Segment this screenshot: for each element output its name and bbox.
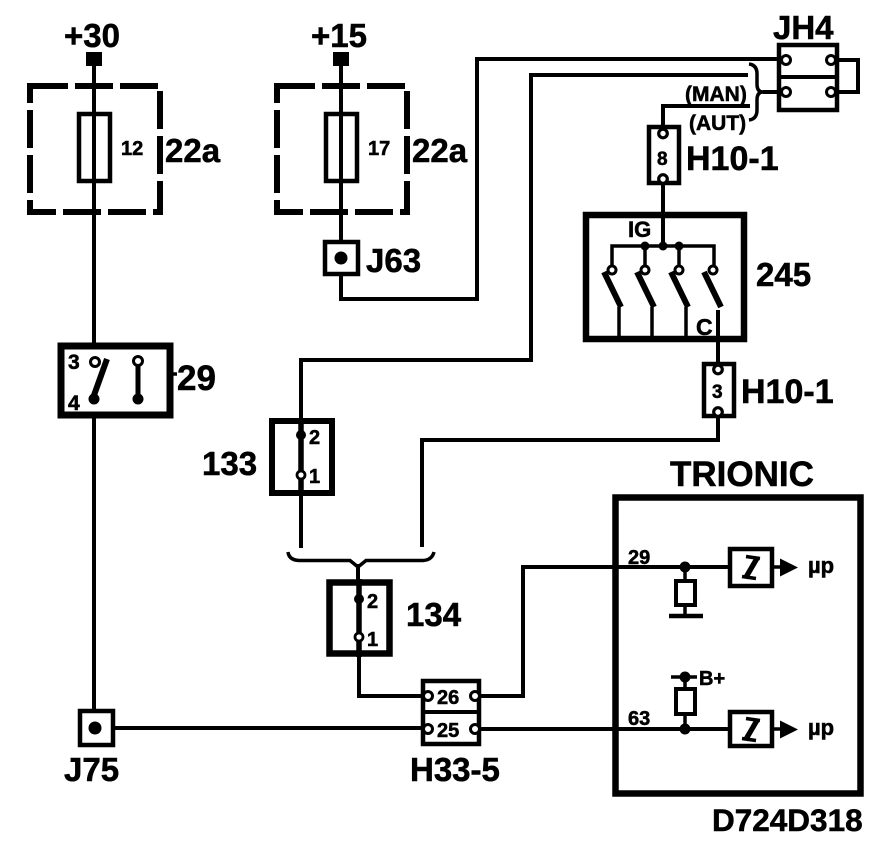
svg-text:3: 3 xyxy=(712,382,723,403)
svg-text:17: 17 xyxy=(368,138,390,160)
svg-text:1: 1 xyxy=(309,466,320,488)
svg-text:2: 2 xyxy=(309,427,320,449)
svg-text:8: 8 xyxy=(657,149,668,170)
svg-text:22a: 22a xyxy=(165,132,221,169)
svg-text:22a: 22a xyxy=(412,132,468,169)
svg-text:133: 133 xyxy=(202,445,257,482)
svg-text:4: 4 xyxy=(68,392,80,415)
svg-text:J75: J75 xyxy=(64,751,119,788)
svg-text:26: 26 xyxy=(437,687,459,709)
svg-text:3: 3 xyxy=(68,351,80,374)
svg-text:(MAN): (MAN) xyxy=(685,83,747,106)
svg-text:12: 12 xyxy=(121,138,143,160)
svg-text:TRIONIC: TRIONIC xyxy=(670,455,814,494)
svg-text:D724D318: D724D318 xyxy=(712,802,863,838)
svg-text:J63: J63 xyxy=(366,242,421,279)
svg-text:B+: B+ xyxy=(699,668,725,690)
svg-text:µp: µp xyxy=(808,715,834,740)
svg-text:25: 25 xyxy=(437,720,459,742)
svg-text:29: 29 xyxy=(177,359,216,398)
svg-text:1: 1 xyxy=(367,629,378,651)
svg-text:63: 63 xyxy=(628,708,650,730)
svg-text:29: 29 xyxy=(628,547,650,569)
svg-text:+15: +15 xyxy=(311,17,367,54)
svg-text:C: C xyxy=(696,314,713,340)
svg-text:2: 2 xyxy=(367,591,378,613)
svg-text:134: 134 xyxy=(406,596,462,633)
svg-text:µp: µp xyxy=(808,553,834,578)
svg-text:245: 245 xyxy=(756,256,811,293)
svg-text:H33-5: H33-5 xyxy=(410,751,500,788)
svg-text:+30: +30 xyxy=(64,17,120,54)
svg-text:(AUT): (AUT) xyxy=(689,112,746,135)
svg-text:H10-1: H10-1 xyxy=(741,373,834,411)
svg-text:JH4: JH4 xyxy=(773,9,834,46)
svg-text:IG: IG xyxy=(628,217,651,242)
svg-text:H10-1: H10-1 xyxy=(686,140,779,178)
